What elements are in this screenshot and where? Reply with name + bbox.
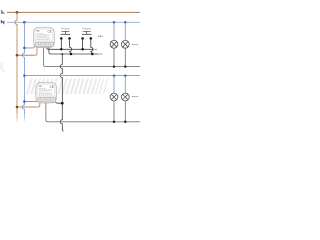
node E4 on lamp bus lower	[124, 121, 127, 124]
wire N branch to device U1	[24, 45, 34, 48]
node E1 on N	[113, 21, 116, 24]
node L branch U2	[16, 106, 19, 109]
node E2 on lamp bus	[124, 65, 127, 68]
wire U2 switched output to lamp bus lower	[46, 103, 140, 122]
pushbutton S1	[60, 31, 71, 39]
wire S2 right hop over bus A to bus B	[91, 38, 93, 53]
node E3 on N distribution	[113, 74, 116, 77]
node N branch U1	[23, 47, 26, 50]
watermark	[26, 79, 108, 95]
wire L vertical drop with hop over N	[15, 12, 17, 114]
device U1	[34, 27, 55, 48]
node N distribution tap	[23, 74, 26, 77]
wire E1 return	[113, 48, 115, 66]
wire U1 output B to pushbutton bus B	[49, 48, 98, 54]
wire lamp E3 feed	[113, 76, 115, 94]
watermark letter fragment left	[1, 63, 5, 73]
node N branch U2	[23, 100, 26, 103]
pushbutton S2 label	[82, 26, 91, 30]
lamp E4	[121, 93, 129, 101]
wire U1 switched output to lamp bus	[44, 48, 140, 67]
node U2 signal junction	[61, 102, 64, 105]
node S1 on bus B	[70, 53, 73, 56]
wire E3 return	[113, 101, 115, 122]
node L tap	[16, 11, 19, 14]
wire U2 signal input	[56, 102, 63, 103]
node N tap	[23, 21, 26, 24]
pushbutton S1 label	[61, 26, 70, 30]
svg-text:Pulsante: Pulsante	[82, 26, 91, 30]
node S1 on bus A	[60, 48, 63, 51]
wire orange into device U2	[38, 103, 40, 108]
wire S1 right hop over bus A to bus B	[70, 38, 72, 53]
wire signal drop to U2 with hops	[60, 54, 63, 131]
wire bus B fade end	[98, 53, 103, 55]
lamp E2	[121, 40, 129, 48]
svg-text:Pulsante: Pulsante	[61, 26, 70, 30]
wire N vertical fade end	[23, 114, 25, 119]
lamp E1	[110, 40, 118, 48]
node E4 on N distribution	[124, 74, 127, 77]
node E3 on lamp bus lower	[113, 121, 116, 124]
pushbutton S2	[81, 31, 92, 39]
wire E2 return	[124, 48, 126, 66]
more pushbuttons dots	[98, 36, 102, 37]
wire L branch to device U1	[17, 54, 34, 56]
wire L vertical fade end	[16, 114, 18, 119]
label L	[2, 10, 5, 13]
wire orange into device U1	[34, 48, 38, 56]
wire L branch to device U2	[17, 106, 38, 108]
label N	[1, 21, 4, 24]
lamp E3	[110, 93, 118, 101]
wire N line	[7, 21, 140, 23]
node L branch U1	[16, 54, 19, 57]
wire S1 left to bus A	[60, 38, 62, 49]
node S2 on bus A	[81, 48, 84, 51]
wire U1 output A to pushbutton bus A	[47, 48, 93, 50]
wire N vertical drop with hops	[22, 22, 24, 114]
wire L line	[7, 11, 140, 13]
device U2	[36, 82, 57, 103]
more lamps dots top	[132, 44, 138, 45]
wire lamp E1 feed from N	[113, 22, 115, 40]
wire E4 return	[124, 101, 126, 122]
wire S2 left to bus A	[82, 38, 84, 49]
wire N distribution lower	[24, 75, 140, 77]
more lamps dots bottom	[132, 96, 138, 97]
node S2 on bus B	[91, 53, 94, 56]
wire lamp E2 feed from N	[124, 22, 126, 40]
wire N branch to device U2	[24, 99, 37, 102]
wire lamp E4 feed	[124, 76, 126, 94]
wire bus A fade end	[93, 48, 97, 50]
node E1 on lamp bus	[113, 65, 116, 68]
node signal junction bus B	[61, 53, 63, 55]
node E2 on N	[124, 21, 127, 24]
